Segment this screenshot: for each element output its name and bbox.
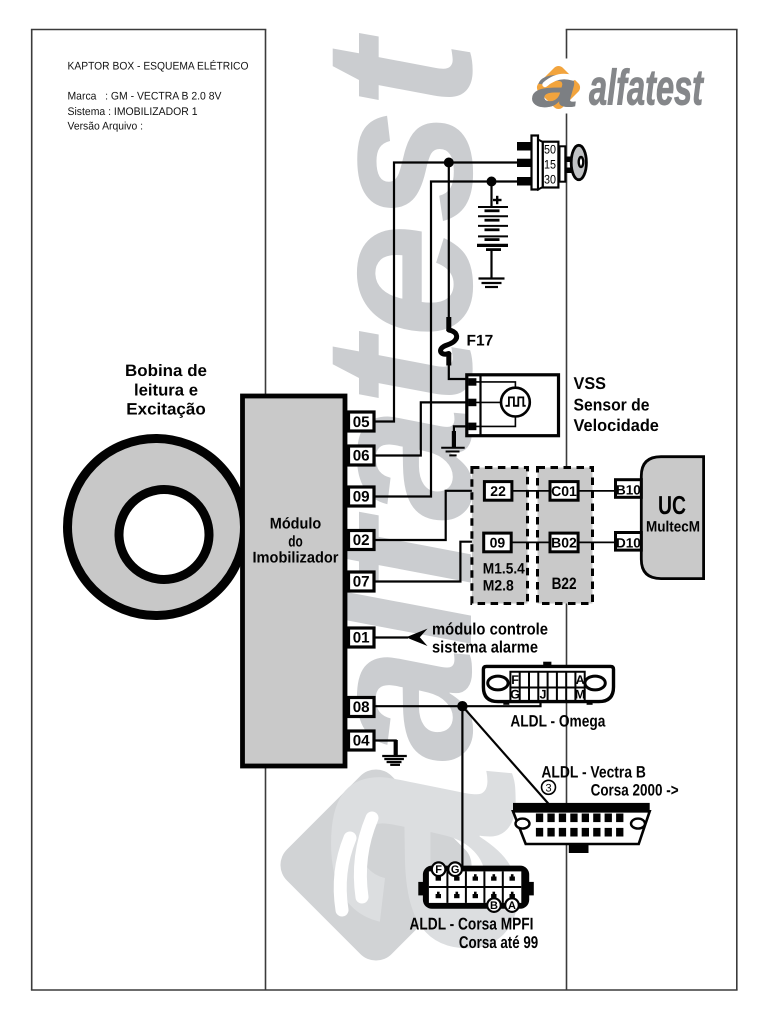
svg-text:02: 02 [353, 532, 370, 549]
alfatest logo [528, 55, 706, 120]
module pin 01 [348, 628, 374, 647]
Corsa pin letters F G B A [432, 862, 519, 912]
svg-text:Corsa até 99: Corsa até 99 [459, 933, 538, 952]
Omega pin letters F A G J M [510, 673, 585, 702]
label modulo controle [432, 621, 548, 657]
connector pin C01 [550, 482, 578, 501]
battery [477, 182, 508, 279]
svg-text:15: 15 [544, 157, 556, 171]
module pin 04 [348, 731, 374, 750]
svg-text:Marca : GM - VECTRA B 2.0 8V: Marca : GM - VECTRA B 2.0 8V [67, 91, 222, 103]
wire pin01 alarm arrow [374, 636, 408, 638]
svg-text:do: do [288, 534, 303, 551]
connector B22 dashed box [537, 468, 592, 604]
VSS label [573, 374, 658, 435]
svg-text:A: A [508, 900, 516, 912]
svg-text:04: 04 [353, 733, 370, 750]
connector pin 22 [484, 482, 512, 501]
label ALDL Vectra [541, 764, 678, 800]
Omega right oval hole [585, 676, 605, 690]
Vectra pin contacts 2x8 [536, 814, 624, 837]
wire pin08 [374, 700, 541, 707]
svg-text:ALDL - Corsa MPFI: ALDL - Corsa MPFI [409, 915, 533, 934]
svg-text:KAPTOR BOX - ESQUEMA ELÉTRICO: KAPTOR BOX - ESQUEMA ELÉTRICO [67, 60, 248, 73]
svg-text:M1.5.4: M1.5.4 [483, 561, 526, 578]
svg-text:alfatest: alfatest [589, 60, 705, 116]
wire B02 to D10 [578, 541, 615, 543]
svg-text:G: G [451, 864, 460, 876]
connector M1.5.4/M2.8 dashed box [472, 468, 528, 604]
ignition terminal labels 50 15 30 [544, 142, 556, 186]
svg-text:M2.8: M2.8 [483, 578, 514, 595]
svg-text:09: 09 [490, 534, 506, 550]
ignition switch terminal stub 50 [517, 142, 532, 151]
svg-text:B10: B10 [616, 483, 641, 498]
pin D10 [615, 533, 641, 551]
module pin 08 [348, 698, 374, 717]
ALDL Omega connector [483, 662, 613, 705]
fuse F17 [441, 163, 468, 380]
svg-text:F: F [435, 864, 442, 876]
wire pin06 to VSS [374, 402, 476, 455]
ALDL Vectra B connector [513, 803, 650, 853]
svg-text:UC: UC [658, 490, 686, 520]
label M1.5.4 M2.8 [483, 561, 526, 595]
svg-text:B: B [490, 900, 498, 912]
svg-text:09: 09 [353, 489, 370, 506]
UC MultecM box [641, 457, 703, 579]
node junction 30 [486, 177, 496, 187]
battery plus [493, 196, 502, 204]
svg-text:Imobilizador: Imobilizador [252, 550, 338, 567]
svg-text:Versão Arquivo :: Versão Arquivo : [67, 121, 143, 133]
node junction 08 [457, 701, 467, 711]
svg-text:D10: D10 [616, 535, 641, 550]
wire 22 to C01 [512, 490, 550, 492]
svg-text:a: a [532, 55, 578, 120]
Corsa pin contacts grid [436, 874, 515, 898]
wire pin02 to pin22 [374, 491, 484, 540]
Omega pin grid [510, 672, 584, 701]
VSS sensor box [467, 375, 559, 436]
header info text [67, 60, 248, 133]
svg-text:F17: F17 [466, 333, 493, 350]
label ALDL Corsa [409, 915, 538, 953]
svg-text:B02: B02 [551, 534, 577, 550]
svg-text:50: 50 [544, 142, 556, 156]
wire pin07 to pin09c [374, 542, 484, 582]
svg-text:22: 22 [490, 483, 506, 499]
svg-text:01: 01 [353, 630, 370, 647]
node junction 15 [444, 158, 454, 168]
wire C01 to B10 [578, 490, 615, 492]
key [565, 145, 586, 179]
svg-text:MultecM: MultecM [646, 519, 700, 536]
svg-text:J: J [540, 688, 547, 702]
connector pin B02 [550, 533, 578, 552]
svg-text:G: G [510, 688, 520, 702]
module pin 05 [348, 412, 374, 431]
wire pin05 to ignition 15 [374, 163, 517, 422]
svg-text:07: 07 [353, 574, 370, 591]
wire pin09 to ignition 30 [374, 182, 517, 497]
wire junction to corsa [461, 706, 463, 867]
module pin 02 [348, 531, 374, 550]
ground battery [478, 279, 504, 288]
svg-text:Sensor de: Sensor de [573, 396, 649, 415]
watermark alfatest text [279, 33, 516, 762]
svg-text:30: 30 [544, 172, 556, 186]
ground pin04 [382, 756, 407, 765]
module pin 06 [348, 446, 374, 465]
modulo do imobilizador [242, 396, 345, 766]
ignition switch terminal stub 30 [517, 177, 532, 186]
svg-text:A: A [576, 673, 585, 687]
svg-text:módulo controle: módulo controle [432, 621, 548, 639]
pin B10 [615, 480, 641, 498]
svg-text:Corsa 2000 ->: Corsa 2000 -> [591, 782, 679, 800]
ground VSS [441, 448, 465, 456]
svg-text:Módulo: Módulo [270, 516, 322, 533]
bobina de leitura circle [67, 439, 244, 616]
svg-text:VSS: VSS [573, 374, 606, 393]
wire pin04 ground [374, 741, 396, 743]
svg-text:sistema alarme: sistema alarme [432, 639, 538, 657]
svg-text:3: 3 [545, 782, 551, 794]
Omega left oval hole [488, 676, 508, 690]
module pin 07 [348, 572, 374, 591]
svg-text:leitura e: leitura e [134, 382, 198, 400]
svg-text:ALDL - Omega: ALDL - Omega [510, 713, 606, 731]
module pin 09 [348, 487, 374, 506]
svg-text:Bobina de: Bobina de [125, 362, 207, 380]
node circle 3 [541, 780, 555, 794]
wire 09 to B02 [511, 541, 550, 543]
bobina label [125, 362, 207, 419]
ignition switch terminal stub 15 [517, 159, 532, 167]
svg-text:C01: C01 [551, 483, 577, 499]
svg-text:ALDL - Vectra B: ALDL - Vectra B [541, 764, 646, 782]
svg-text:B22: B22 [552, 575, 577, 593]
svg-text:Sistema : IMOBILIZADOR 1: Sistema : IMOBILIZADOR 1 [67, 106, 197, 118]
VSS ground wire [454, 426, 468, 441]
svg-text:Velocidade: Velocidade [573, 416, 658, 435]
svg-text:F: F [511, 673, 519, 687]
watermark logo diamond [207, 760, 587, 969]
svg-text:Excitação: Excitação [126, 401, 206, 419]
ALDL Corsa MPFI connector [418, 862, 534, 912]
wire diagonal to vectra [462, 706, 554, 810]
svg-text:05: 05 [353, 414, 370, 431]
svg-text:06: 06 [353, 448, 370, 465]
svg-text:M: M [575, 688, 585, 702]
ignition switch body [531, 136, 565, 190]
svg-text:08: 08 [353, 699, 370, 716]
connector pin 09 [484, 533, 512, 552]
